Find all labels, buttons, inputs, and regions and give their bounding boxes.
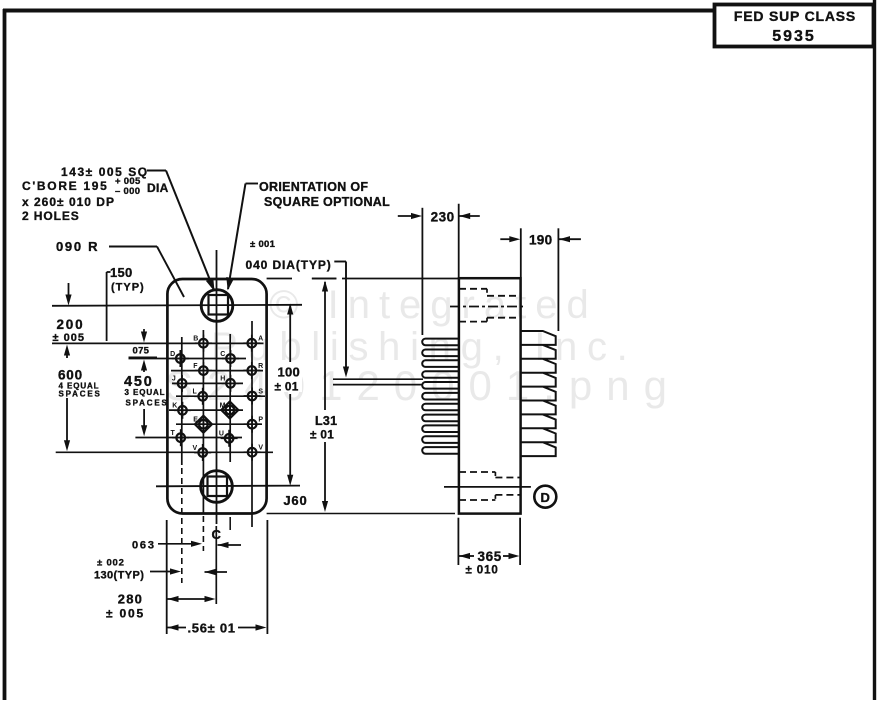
svg-text:C: C	[220, 351, 225, 358]
svg-text:FED SUP CLASS: FED SUP CLASS	[734, 8, 856, 24]
page border top	[3, 9, 716, 13]
hidden hole bottom inner	[495, 477, 520, 479]
horizontal centerline top hole	[52, 305, 302, 306]
row line 2 (D-C)	[129, 358, 247, 360]
svg-text:V: V	[193, 445, 198, 452]
extension line top edge to side view	[267, 278, 292, 280]
square counterbore top	[209, 295, 229, 315]
dim 230	[421, 208, 423, 335]
leaf contact left 5	[422, 382, 459, 389]
svg-text:130(TYP): 130(TYP)	[94, 570, 144, 582]
leaf contact left 11	[422, 447, 459, 454]
row line 3 (F-R)	[171, 370, 263, 372]
horizontal centerline bottom hole	[156, 485, 300, 488]
svg-text:± 005: ± 005	[106, 607, 145, 621]
row line 6 (K-M)	[169, 409, 243, 411]
contact V	[244, 444, 264, 461]
column c2 extension dashed	[202, 516, 204, 551]
vertical centerline main	[216, 250, 218, 524]
extension line bottom edge to side view	[267, 513, 455, 515]
leader 040 DIA to contact	[334, 261, 346, 263]
dim 100 +-01	[287, 304, 293, 315]
contact E	[193, 416, 212, 433]
page border right	[873, 0, 876, 700]
leaf contact left 1	[422, 339, 459, 346]
svg-text:± 002: ± 002	[97, 558, 125, 569]
extension line left edge bottom	[166, 520, 168, 634]
svg-text:R: R	[258, 363, 263, 370]
dim 365 +-010	[457, 518, 459, 565]
svg-text:5935: 5935	[772, 28, 816, 45]
svg-text:L31: L31	[315, 414, 337, 428]
row line 5 (L-S)	[176, 395, 265, 397]
square orientation diamond on M	[221, 402, 238, 419]
svg-text:280: 280	[118, 592, 143, 607]
square orientation diamond on E	[195, 416, 212, 433]
contact A	[243, 335, 263, 352]
contact L	[193, 388, 212, 405]
centerline top hole side	[450, 306, 525, 308]
contact V	[193, 444, 212, 461]
svg-text:A: A	[258, 336, 263, 343]
dim 56 +-01	[168, 624, 179, 630]
page border left	[3, 9, 7, 700]
svg-text:K: K	[172, 403, 177, 410]
contact U	[219, 430, 238, 447]
connector body front view	[167, 279, 266, 514]
svg-text:F: F	[193, 363, 198, 370]
svg-text:C: C	[212, 527, 222, 542]
column centerline c1	[181, 337, 183, 465]
column c1 extension dashed	[181, 468, 183, 583]
vertical centerline extension below with symbol	[215, 526, 217, 604]
svg-text:040 DIA(TYP): 040 DIA(TYP)	[246, 258, 332, 272]
svg-text:V: V	[258, 445, 263, 452]
dim L31 +-01	[322, 281, 328, 292]
contact R	[243, 362, 263, 379]
svg-text:D: D	[540, 490, 550, 505]
svg-text:J60: J60	[283, 493, 307, 508]
svg-text:075: 075	[133, 346, 150, 357]
column centerline c4	[251, 321, 253, 527]
svg-text:063: 063	[132, 540, 156, 552]
contact H	[220, 375, 239, 392]
leaf contact left 2	[422, 350, 459, 357]
svg-text:D: D	[170, 351, 175, 358]
hidden hole top inner	[487, 295, 521, 297]
mounting hole bottom	[201, 471, 233, 503]
mounting hole top	[201, 290, 233, 322]
svg-text:230: 230	[431, 210, 455, 225]
contact T	[171, 429, 190, 446]
row line 9 (V-V)	[56, 451, 273, 453]
extension line right edge bottom	[266, 520, 268, 634]
leader from 090 R to corner radius	[109, 246, 157, 248]
svg-text:J: J	[172, 376, 176, 383]
svg-text:3 EQUAL: 3 EQUAL	[125, 388, 166, 397]
svg-text:T: T	[171, 430, 176, 437]
svg-text:U: U	[219, 431, 224, 438]
row line 7 (E-P)	[176, 423, 262, 425]
connector body side view	[459, 278, 521, 513]
contact K	[172, 402, 191, 419]
contact M	[220, 402, 239, 419]
dim 190	[520, 228, 522, 277]
column c3 stub below	[229, 517, 231, 530]
svg-text:© Integrated: © Integrated	[269, 283, 598, 327]
svg-text:200: 200	[57, 317, 85, 332]
svg-text:SQUARE OPTIONAL: SQUARE OPTIONAL	[264, 195, 390, 209]
leaf contact left 10	[422, 436, 459, 443]
dim 200 +-005	[68, 283, 70, 297]
right contacts sawtooth	[521, 331, 556, 456]
contact B	[193, 335, 212, 352]
svg-text:H: H	[220, 376, 225, 383]
svg-text:C'BORE 195: C'BORE 195	[22, 179, 109, 193]
hidden hole bottom outer	[459, 471, 495, 473]
svg-text:(TYP): (TYP)	[111, 282, 145, 294]
contact F	[193, 362, 212, 379]
svg-text:SPACES: SPACES	[126, 399, 169, 408]
contact J	[172, 375, 191, 392]
leader from 143 label to top hole	[147, 170, 166, 172]
svg-text:± 01: ± 01	[310, 428, 334, 442]
leaf contact left 9	[422, 425, 459, 432]
svg-text:± 01: ± 01	[275, 380, 299, 394]
hidden hole top outer	[459, 288, 487, 290]
svg-text:± 005: ± 005	[53, 332, 85, 344]
contact C	[220, 350, 239, 367]
svg-text:SPACES: SPACES	[59, 390, 102, 399]
contact S	[244, 388, 264, 405]
svg-text:100: 100	[278, 365, 301, 380]
svg-text:150: 150	[110, 265, 133, 280]
svg-text:± 010: ± 010	[466, 565, 499, 577]
svg-text:± 001: ± 001	[250, 239, 276, 250]
svg-text:DIA: DIA	[147, 181, 169, 195]
title box FED SUP CLASS 5935	[715, 5, 874, 47]
svg-text:090 R: 090 R	[56, 239, 99, 254]
leader from ORIENTATION label to top hole	[246, 183, 259, 185]
svg-text:L: L	[193, 389, 198, 396]
datum circle D	[534, 486, 556, 508]
svg-text:2 HOLES: 2 HOLES	[22, 209, 80, 223]
leaf contact left 6	[422, 393, 459, 400]
row line 8 (T-U)	[135, 437, 242, 439]
svg-text:B: B	[193, 336, 198, 343]
column centerline c3	[229, 334, 231, 462]
contact P	[244, 416, 264, 433]
contact pin line	[333, 378, 423, 380]
leaf contact left 4	[422, 371, 459, 378]
leaf contact left 7	[422, 404, 459, 411]
svg-text:P: P	[258, 417, 263, 424]
svg-text:– 000: – 000	[115, 186, 140, 197]
square counterbore bottom	[208, 477, 228, 497]
leaf contact left 8	[422, 415, 459, 422]
svg-text:ORIENTATION OF: ORIENTATION OF	[259, 180, 368, 194]
svg-text:190: 190	[529, 233, 552, 248]
column centerline c2	[202, 330, 204, 513]
svg-text:S: S	[258, 388, 263, 395]
svg-text:600: 600	[58, 368, 83, 383]
svg-text:365: 365	[478, 549, 502, 564]
svg-text:x 260± 010 DP: x 260± 010 DP	[22, 195, 115, 209]
centerline bottom hole side	[444, 486, 531, 488]
leaf contact left 3	[422, 360, 459, 367]
row line 4 (J-H)	[172, 382, 243, 384]
row line 1 (B-A)	[52, 342, 264, 344]
svg-text:.56± 01: .56± 01	[188, 621, 236, 636]
contact D	[170, 350, 189, 367]
